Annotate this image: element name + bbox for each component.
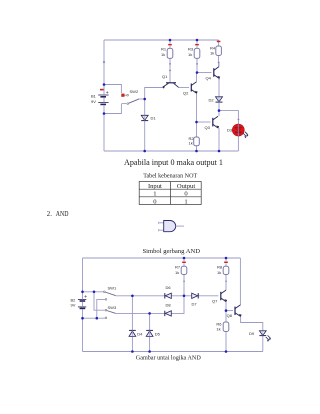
svg-text:1k: 1k xyxy=(210,51,214,56)
node left rail joint xyxy=(103,61,105,63)
wire node up and right to Q1 emitter xyxy=(145,88,162,100)
svg-text:9V: 9V xyxy=(71,303,76,308)
svg-text:Gambar untai logika AND: Gambar untai logika AND xyxy=(136,355,201,362)
svg-text:1k: 1k xyxy=(161,52,165,57)
node D6/D8/R7 xyxy=(183,295,186,298)
svg-text:Q8: Q8 xyxy=(227,313,233,318)
svg-text:D5: D5 xyxy=(155,331,161,336)
wire Q2 emitter down to node xyxy=(196,94,198,123)
diode D4 xyxy=(129,330,136,336)
node B2 negative xyxy=(81,317,84,320)
wire B2 top to switches xyxy=(83,291,104,293)
node bottom rail D5 xyxy=(148,350,151,353)
diode D2 xyxy=(216,97,223,102)
transistor Q8 xyxy=(235,305,242,317)
switch SW2 xyxy=(121,89,139,105)
wire node to R6 and rail xyxy=(225,311,227,352)
node Q7 emitter/R6/Q8 xyxy=(225,309,228,312)
wire Q3 collector up xyxy=(218,111,220,116)
wire node to Q3 base xyxy=(197,121,211,123)
svg-text:D2: D2 xyxy=(209,97,215,102)
node D2 out xyxy=(218,109,221,112)
diode D5 xyxy=(146,330,153,336)
wire Q8 emitter to LED xyxy=(241,316,263,330)
svg-text:9V: 9V xyxy=(91,99,96,104)
wire through D9 xyxy=(262,331,264,336)
resistor R3 xyxy=(188,44,200,59)
node R3/Q2/Q4 xyxy=(196,71,199,74)
wire through D4 xyxy=(131,330,133,336)
wire bottom rail xyxy=(104,150,238,152)
wire D5 column xyxy=(149,313,151,351)
diode D8 xyxy=(165,311,172,316)
wire R8 column xyxy=(225,258,227,290)
svg-text:Q7: Q7 xyxy=(212,298,218,303)
svg-text:D4: D4 xyxy=(137,331,143,336)
resistor R4 xyxy=(210,41,221,56)
wire D4 column xyxy=(131,296,133,352)
resistor R2 xyxy=(189,136,200,146)
node bottom rail R6 xyxy=(225,350,228,353)
node bottom rail D4 xyxy=(131,350,134,353)
wire LED bottom xyxy=(262,336,264,352)
wire R7 column xyxy=(183,258,185,296)
wire LED bottom xyxy=(237,136,239,151)
svg-text:AND: AND xyxy=(56,211,69,218)
node R8 top xyxy=(225,257,228,260)
svg-text:Output: Output xyxy=(177,183,195,190)
svg-text:Simbol gerbang AND: Simbol gerbang AND xyxy=(143,248,201,255)
svg-text:1k: 1k xyxy=(189,141,193,146)
node R3 top xyxy=(196,39,199,42)
node SW2 pole xyxy=(143,98,146,101)
wire node to Q8 base xyxy=(226,310,233,312)
svg-text:D1: D1 xyxy=(151,116,157,121)
wire node down to D1 xyxy=(144,99,146,151)
wire top rail xyxy=(104,39,219,41)
svg-text:SW1: SW1 xyxy=(108,286,117,291)
wire Q8 collector to top rail xyxy=(239,258,241,305)
svg-text:1: 1 xyxy=(184,198,187,205)
AND gate symbol xyxy=(159,221,184,232)
transistor Q2 xyxy=(191,82,197,94)
transistor Q3 xyxy=(213,116,219,128)
node bottom rail D1 xyxy=(143,150,146,153)
svg-text:1k: 1k xyxy=(216,327,220,332)
truth table NOT xyxy=(139,182,201,205)
LED D3 (lit, red) xyxy=(227,124,248,138)
resistor R8 xyxy=(217,262,229,275)
svg-text:Tabel kebenaran NOT: Tabel kebenaran NOT xyxy=(143,173,197,180)
node SW1 supply junction xyxy=(93,291,96,294)
wire D8 out up to node xyxy=(172,296,184,314)
switch SW1 xyxy=(104,286,117,301)
wire through D1 xyxy=(144,115,146,120)
svg-text:Apabila input 0 maka output 1: Apabila input 0 maka output 1 xyxy=(124,158,223,167)
resistor R1 xyxy=(161,44,173,59)
node SW1 row D4 branch xyxy=(131,295,134,298)
svg-text:SW3: SW3 xyxy=(108,305,117,310)
node R7 top xyxy=(183,257,186,260)
wire node to LED column xyxy=(219,111,238,125)
svg-text:1k: 1k xyxy=(175,270,179,275)
wire SW3 pole row to D8 xyxy=(116,312,165,314)
wire R4 xyxy=(218,40,220,67)
resistor R6 xyxy=(216,321,228,331)
wire top rail xyxy=(83,257,241,259)
wire SW1 pole row to D6 xyxy=(116,295,165,297)
wire Q4 collector to R4 xyxy=(218,63,220,67)
wire Q2 collector up xyxy=(196,73,198,82)
node SW3 ground junction xyxy=(96,317,99,320)
pin ticks xyxy=(169,62,239,282)
wire Q1 collector to Q2 base xyxy=(178,87,189,89)
node SW3 row D5 branch xyxy=(148,312,151,315)
wire SW2 pole to node xyxy=(139,98,145,100)
wire SW1 lower to bottom node xyxy=(97,299,105,318)
wire node down to R2 xyxy=(196,122,198,151)
wire D6 out to node xyxy=(172,295,192,297)
wire through D2 xyxy=(218,97,220,102)
node bottom rail Q3 xyxy=(218,150,221,153)
switch SW3 xyxy=(105,305,117,319)
LED D9 xyxy=(249,331,271,342)
wire left vertical xyxy=(103,40,105,151)
svg-text:SW2: SW2 xyxy=(130,89,139,94)
resistor R7 xyxy=(175,262,187,275)
diode D6 xyxy=(165,293,172,298)
node Q3 base xyxy=(195,121,198,124)
svg-text:D9: D9 xyxy=(249,331,255,336)
wire bottom rail xyxy=(83,351,263,353)
wire SW3 upper to top node xyxy=(94,292,105,310)
svg-text:1k: 1k xyxy=(188,52,192,57)
svg-text:Q3: Q3 xyxy=(205,125,211,130)
wire B2 bottom to SW3 lower xyxy=(83,317,106,319)
node B2 positive xyxy=(81,291,84,294)
node battery top xyxy=(103,83,106,86)
svg-text:1: 1 xyxy=(153,191,156,198)
svg-text:D6: D6 xyxy=(166,285,172,290)
wire D2 to node xyxy=(218,103,220,111)
wire Q4 emitter to D2 xyxy=(218,79,220,97)
transistor Q4 xyxy=(214,67,220,79)
wire through D5 xyxy=(149,330,151,336)
node R1 top xyxy=(169,39,172,42)
svg-text:D7: D7 xyxy=(192,302,198,307)
wire node to Q4 base xyxy=(197,72,212,74)
wire battery B1 top to switch xyxy=(104,85,121,94)
transistor Q7 xyxy=(221,290,227,302)
svg-text:Q4: Q4 xyxy=(206,75,212,80)
node bottom rail R2 xyxy=(195,150,198,153)
svg-text:Q1: Q1 xyxy=(162,74,168,79)
transistor Q1 xyxy=(162,83,178,89)
svg-text:2.: 2. xyxy=(47,211,52,218)
svg-text:D3: D3 xyxy=(227,127,233,132)
wire R1 bottom to Q1 base xyxy=(169,40,171,83)
diode D1 xyxy=(141,115,148,120)
wire left vertical xyxy=(82,258,84,352)
svg-text:1k: 1k xyxy=(217,270,221,275)
wire R3 bottom to node xyxy=(196,40,198,73)
wire D7 out to Q7 base xyxy=(198,295,218,297)
node battery bottom xyxy=(103,112,106,115)
wire battery B1 bottom to switch xyxy=(104,104,121,114)
wire Q3 emitter down xyxy=(218,128,220,151)
battery B1 xyxy=(91,85,109,114)
svg-text:D8: D8 xyxy=(166,303,172,308)
svg-text:Input: Input xyxy=(148,183,162,190)
svg-text:Q2: Q2 xyxy=(183,91,189,96)
wire Q7 emitter down xyxy=(225,302,227,311)
diode D7 xyxy=(192,293,199,298)
battery B2 xyxy=(71,292,87,318)
